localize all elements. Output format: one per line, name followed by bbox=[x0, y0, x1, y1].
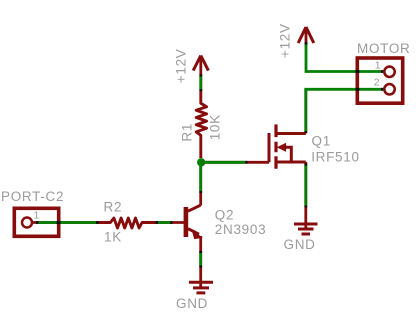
wire Q2 emitter to GND (net) bbox=[199, 236, 202, 289]
svg-text:R1: R1 bbox=[179, 123, 194, 142]
svg-text:+12V: +12V bbox=[174, 48, 189, 83]
svg-text:2: 2 bbox=[374, 77, 381, 89]
mosfet Q1 bbox=[269, 124, 306, 168]
wire Q1 source to GND (net) bbox=[304, 162, 307, 230]
wire R2 to Q2 base (net) bbox=[156, 221, 184, 224]
svg-text:1: 1 bbox=[34, 210, 41, 222]
svg-text:Q1: Q1 bbox=[312, 134, 331, 149]
supply +12V arrow (MOTOR) bbox=[298, 27, 383, 72]
svg-text:PORT-C2: PORT-C2 bbox=[1, 189, 64, 204]
wire/box dark overlap (MOTOR left edge, pin1 wire) bbox=[356, 70, 360, 73]
wire junction to Q1 gate (net) bbox=[201, 161, 269, 164]
wire Q2 collector to junction (net) bbox=[199, 162, 202, 205]
ground GND (Q1 source) bbox=[294, 224, 318, 234]
svg-text:IRF510: IRF510 bbox=[311, 149, 359, 164]
svg-text:MOTOR: MOTOR bbox=[357, 41, 411, 56]
connector PORT-C2 bbox=[14, 208, 58, 236]
svg-text:10K: 10K bbox=[207, 114, 222, 140]
svg-text:1: 1 bbox=[375, 59, 382, 71]
svg-text:+12V: +12V bbox=[278, 23, 293, 58]
svg-text:1K: 1K bbox=[104, 229, 122, 244]
ground GND (Q2 emitter) bbox=[189, 282, 213, 293]
svg-text:GND: GND bbox=[284, 237, 316, 252]
resistor R2 bbox=[99, 218, 157, 228]
supply +12V arrow (R1) bbox=[193, 56, 208, 92]
svg-text:R2: R2 bbox=[104, 200, 123, 215]
svg-text:Q2: Q2 bbox=[215, 207, 234, 222]
wire/box dark overlap (MOTOR left edge, pin2 wire) bbox=[356, 88, 360, 91]
wire/box dark overlap (PORT-C2 right edge) bbox=[57, 221, 61, 224]
wire motor pin2 horizontal (net) bbox=[304, 88, 383, 91]
wire PORT-C2 pin1 to R2 (net) bbox=[32, 221, 100, 224]
node junction (R1/Q2/Q1 gate) bbox=[197, 158, 205, 166]
wire Q1 drain up to motor pin2 corner (net) bbox=[304, 89, 307, 133]
transistor Q2 bbox=[184, 205, 202, 238]
svg-text:GND: GND bbox=[176, 296, 208, 311]
resistor R1 bbox=[196, 91, 206, 158]
svg-text:2N3903: 2N3903 bbox=[215, 222, 266, 237]
connector MOTOR bbox=[357, 58, 402, 103]
